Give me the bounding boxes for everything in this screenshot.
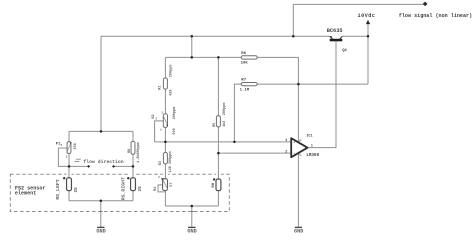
wire node B to opamp pin2 <box>218 152 291 154</box>
wire node A to opamp pin3 <box>155 141 292 143</box>
wire R7 left lead down to node A <box>234 84 241 142</box>
wire 10V rail left segment (emitter side) <box>101 35 330 37</box>
wire R3 to R4 <box>164 164 166 179</box>
junction R5 top <box>217 56 220 59</box>
wire R7 right lead <box>257 83 298 85</box>
wire top rail to flow signal port <box>293 3 423 5</box>
junction rail / 10Vdc supply <box>367 35 370 38</box>
junction R8/RS_RIGHT midpoint <box>132 165 135 168</box>
svg-text:LM358: LM358 <box>306 154 319 158</box>
wire R1 to R2 <box>164 89 166 114</box>
svg-text:R5: R5 <box>213 123 217 127</box>
wire R2 to R3 through node A <box>164 127 166 152</box>
node A junction R2/R3 <box>164 141 167 144</box>
svg-text:R4: R4 <box>154 187 158 191</box>
junction rail / flow signal branch <box>292 35 295 38</box>
wire vertical rail to y57 <box>191 36 193 57</box>
resistor R8 <box>128 141 141 163</box>
resistor R6 <box>241 52 258 66</box>
wire P1 bottom lead <box>68 154 70 167</box>
wire opamp output to Q1 base <box>308 42 337 148</box>
svg-text:500: 500 <box>74 143 78 149</box>
wire RS_RIGHT top lead <box>132 166 134 177</box>
sensor resistor RH <box>212 178 221 191</box>
wire stub to right flow diamond <box>115 165 133 167</box>
junction R7 tap on node A wire <box>233 141 236 144</box>
wire P1 top lead <box>68 131 70 141</box>
svg-text:200ppm: 200ppm <box>173 107 177 120</box>
wire GND1 drop <box>100 201 102 227</box>
FS2 sensor element dashed box <box>10 173 229 212</box>
svg-text:GND: GND <box>294 228 303 234</box>
wire RS_LEFT bottom lead <box>68 191 70 201</box>
wire R8 top lead <box>132 131 134 141</box>
svg-text:flow signal (non linear): flow signal (non linear) <box>399 13 472 19</box>
wire horizontal to R6/R7 junction <box>298 83 368 85</box>
svg-text:element: element <box>15 191 36 197</box>
wire R5 top lead <box>217 57 219 115</box>
wire RS_LEFT top lead <box>68 166 70 177</box>
sensor resistor RS_LEFT <box>55 177 79 200</box>
svg-text:25: 25 <box>74 187 79 193</box>
svg-text:200ppm: 200ppm <box>137 142 141 155</box>
ground GND2 <box>187 227 196 234</box>
trimmer R2 <box>152 107 177 135</box>
ground GND1 <box>96 227 105 234</box>
wire RH bottom lead <box>217 191 219 206</box>
sensor resistor RS_RIGHT <box>120 177 143 200</box>
svg-text:10k: 10k <box>241 61 249 66</box>
trimmer P1 <box>56 142 78 159</box>
svg-text:1: 1 <box>66 156 68 159</box>
wire R4 bottom <box>164 190 166 206</box>
svg-text:+: + <box>293 141 295 145</box>
wire GND2 drop <box>191 206 193 227</box>
resistor R7 <box>240 79 258 93</box>
node flow direction markers <box>74 158 123 168</box>
wire 10V rail right segment (collector side) <box>342 35 368 37</box>
wire R8 bottom lead <box>132 154 134 166</box>
wire P1 wiper <box>58 148 69 166</box>
svg-text:Q1: Q1 <box>342 49 347 53</box>
junction rail / feed drop <box>191 35 194 38</box>
junction bridge feed / R6 wire <box>191 56 194 59</box>
junction R6-R7 / opamp V+ <box>297 83 300 86</box>
ground GND3 <box>294 227 303 234</box>
wire left drop from rail to bridge <box>100 36 102 131</box>
wire opamp V- to GND <box>297 153 299 227</box>
resistor R1 <box>159 65 174 96</box>
wire R6 right lead down to junction and opamp V+ <box>257 57 298 142</box>
junction bottom rail / GND2 <box>191 205 194 208</box>
wire RS_RIGHT bottom lead <box>132 191 134 201</box>
junction P1/RS_LEFT midpoint <box>68 165 71 168</box>
wire R4 wiper <box>158 185 165 192</box>
wire bottom rail 2 <box>165 205 218 207</box>
supply symbol 10Vdc <box>358 13 376 24</box>
svg-text:10Vdc: 10Vdc <box>358 13 376 19</box>
wire supply drop from 10Vdc arrow through rail down <box>367 24 369 84</box>
svg-text:2: 2 <box>285 151 287 155</box>
svg-text:RS_LEFT: RS_LEFT <box>55 179 61 200</box>
svg-text:RH: RH <box>212 182 216 187</box>
transistor Q1 BC635 <box>327 28 348 53</box>
svg-text:3: 3 <box>285 139 287 143</box>
svg-text:1k2: 1k2 <box>222 121 227 127</box>
op-amp IC1 LM358 <box>285 134 319 158</box>
wire R5 bottom through node B to RH <box>217 127 219 179</box>
svg-text:1.1M: 1.1M <box>240 88 250 92</box>
svg-text:500: 500 <box>173 128 177 134</box>
svg-text:120: 120 <box>169 166 173 172</box>
junction bridge top center <box>100 130 103 133</box>
svg-text:200ppm: 200ppm <box>223 103 227 116</box>
svg-text:57: 57 <box>170 182 174 186</box>
trimmer R4 <box>154 176 174 191</box>
junction sensor bottom / GND1 <box>100 199 103 202</box>
node B junction R5/RH <box>217 152 220 155</box>
svg-text:R3: R3 <box>159 161 163 165</box>
svg-text:200ppm: 200ppm <box>170 65 174 78</box>
svg-text:-: - <box>293 153 295 157</box>
wire bridge top feed y57 <box>165 56 241 58</box>
svg-text:IC1: IC1 <box>306 134 312 138</box>
svg-text:R6: R6 <box>241 52 246 56</box>
svg-text:R7: R7 <box>241 79 246 83</box>
svg-text:2: 2 <box>158 176 160 179</box>
svg-text:25: 25 <box>138 186 143 192</box>
wire vertical from top rail down to 10V rail <box>292 4 294 36</box>
svg-text:R1: R1 <box>159 86 163 90</box>
wire sensor bottom left <box>69 200 133 202</box>
port flow signal (non linear) <box>399 2 472 20</box>
wire stub to left flow diamond <box>69 165 87 167</box>
svg-text:200ppm: 200ppm <box>169 151 173 164</box>
svg-text:GND: GND <box>96 228 105 234</box>
resistor R3 <box>159 151 173 172</box>
svg-text:2: 2 <box>60 144 62 147</box>
wire R2 wiper <box>155 121 163 142</box>
svg-text:BC635: BC635 <box>327 28 343 34</box>
svg-text:1: 1 <box>311 145 313 149</box>
svg-text:R8: R8 <box>128 149 132 153</box>
svg-text:flow direction: flow direction <box>83 159 123 165</box>
svg-text:RS_RIGHT: RS_RIGHT <box>120 177 126 200</box>
wire middle column R1 top <box>164 57 166 78</box>
wire bridge top <box>69 130 133 132</box>
svg-text:428: 428 <box>170 89 174 95</box>
resistor R5 <box>213 103 227 127</box>
svg-text:GND: GND <box>187 228 196 234</box>
